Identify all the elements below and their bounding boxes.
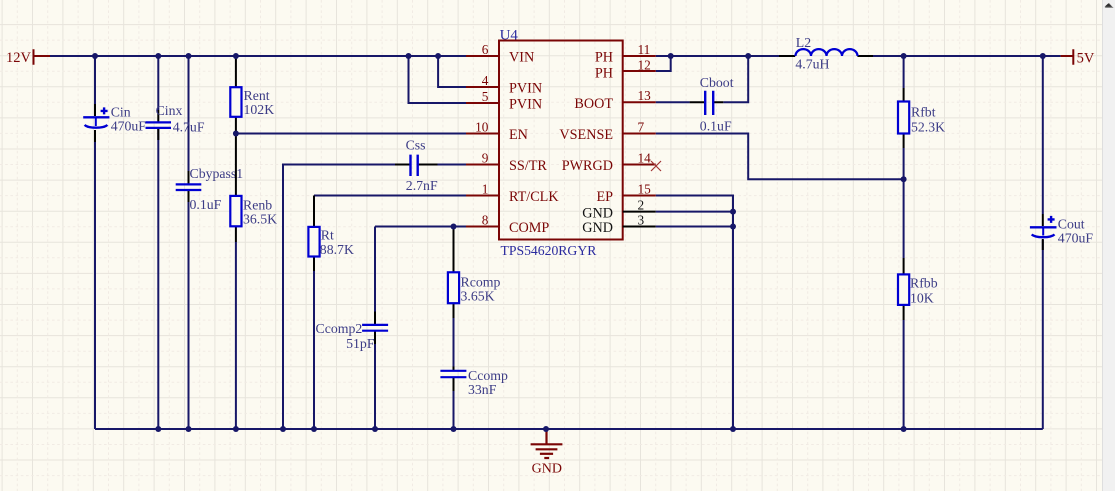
inductor L2 [779, 49, 873, 56]
resistor Rcomp [448, 227, 459, 319]
svg-text:36.5K: 36.5K [243, 212, 277, 227]
wire: PH pins 11-12 [656, 56, 779, 71]
pin 8 COMP [466, 212, 549, 236]
pin 13 BOOT [574, 88, 655, 112]
junction node: GND pin2 tie [730, 209, 736, 215]
wire: Rt lower to bus [313, 271, 315, 429]
capacitor Cbypass1 [176, 171, 202, 202]
pin 11 PH [595, 42, 656, 66]
resistor Rent [230, 55, 241, 134]
junction node: EN / Rent / Renb [233, 131, 239, 137]
svg-text:0.1uF: 0.1uF [190, 197, 222, 212]
svg-text:TPS54620RGYR: TPS54620RGYR [501, 243, 598, 258]
wire: VSENSE feedback net [656, 134, 904, 180]
capacitor Cboot [690, 91, 724, 115]
wire: Ccomp2 branch [374, 227, 376, 430]
pin 4 PVIN [466, 73, 542, 97]
svg-text:Rent: Rent [244, 88, 270, 103]
svg-text:5V: 5V [1077, 50, 1095, 66]
svg-text:15: 15 [638, 181, 652, 196]
junction node: bus / Cinx [155, 426, 161, 432]
capacitor Css [395, 155, 438, 176]
resistor Rt [308, 196, 319, 272]
svg-text:U4: U4 [500, 28, 519, 44]
resistor Rfbb [898, 258, 909, 320]
svg-text:7: 7 [638, 119, 645, 134]
svg-text:RT/CLK: RT/CLK [509, 189, 559, 205]
wire: PVIN pin4 drop [438, 56, 466, 87]
svg-text:3.65K: 3.65K [461, 289, 495, 304]
junction node: 12V rail / Cin [92, 53, 98, 59]
svg-text:11: 11 [638, 42, 651, 57]
wire: BOOT net with Cboot [656, 56, 749, 102]
svg-text:VSENSE: VSENSE [559, 127, 613, 143]
wire: SS/TR net with Css [283, 165, 466, 430]
pin 9 SS/TR [466, 150, 547, 174]
pin 1 RT/CLK [466, 181, 559, 205]
svg-text:33nF: 33nF [468, 382, 497, 397]
svg-text:52.3K: 52.3K [911, 120, 945, 135]
pin 12 PH [595, 57, 656, 81]
svg-text:0.1uF: 0.1uF [700, 119, 732, 134]
svg-text:2: 2 [638, 197, 645, 212]
no-connect X on pin 14 [651, 161, 661, 171]
svg-text:14: 14 [638, 150, 652, 165]
junction node: 5V rail / Cout [1040, 53, 1046, 59]
svg-text:Rcomp: Rcomp [461, 275, 501, 290]
svg-text:SS/TR: SS/TR [509, 158, 547, 174]
svg-text:13: 13 [638, 88, 652, 103]
pin 5 PVIN [466, 89, 542, 113]
svg-text:VIN: VIN [509, 50, 534, 66]
ground symbol GND [531, 429, 563, 458]
port 12V [34, 49, 51, 64]
wire: EP/GND pins to bus [656, 196, 733, 430]
junction node: bus / Renb [233, 426, 239, 432]
svg-text:51pF: 51pF [346, 336, 375, 351]
svg-text:Cout: Cout [1058, 217, 1085, 232]
svg-text:BOOT: BOOT [574, 96, 613, 112]
svg-text:GND: GND [582, 205, 613, 221]
resistor Rfbt [898, 88, 909, 148]
capacitor Ccomp [440, 367, 466, 392]
svg-text:PVIN: PVIN [509, 97, 542, 113]
junction node: bus / Css branch [280, 426, 286, 432]
junction node: bus / GND symbol [543, 426, 549, 432]
svg-text:PH: PH [595, 65, 613, 81]
wire: 12V input rail [50, 55, 466, 57]
wire: Cout branch [1042, 55, 1044, 429]
junction node: PH rail / Cboot riser [745, 53, 751, 59]
wire: Cinx branch [157, 55, 159, 429]
pin 14 PWRGD [562, 150, 656, 174]
wire: EN net [236, 133, 466, 135]
svg-text:470uF: 470uF [1058, 231, 1094, 246]
svg-text:2.7nF: 2.7nF [406, 178, 438, 193]
svg-text:Renb: Renb [243, 198, 272, 213]
junction node: VSENSE / Rfbt / Rfbb [901, 176, 907, 182]
svg-text:Ccomp: Ccomp [468, 368, 508, 383]
wire: Cbypass1 branch [188, 55, 190, 429]
svg-text:6: 6 [482, 42, 489, 57]
svg-text:12V: 12V [6, 50, 32, 66]
junction node: 12V rail / Cinx [155, 53, 161, 59]
svg-text:Rfbb: Rfbb [910, 276, 938, 291]
svg-text:PWRGD: PWRGD [562, 158, 613, 174]
svg-text:Cboot: Cboot [700, 75, 734, 90]
IC U4 TPS54620RGYR body [499, 41, 623, 240]
svg-text:9: 9 [482, 150, 489, 165]
pin 7 VSENSE [559, 119, 655, 143]
svg-text:GND: GND [582, 220, 613, 236]
junction node: bus / Rfbb [901, 426, 907, 432]
resistor Renb [230, 134, 241, 243]
svg-text:EN: EN [509, 127, 528, 143]
svg-text:Rt: Rt [321, 228, 334, 243]
pin 2 GND [582, 197, 655, 221]
junction node: COMP / Rcomp [451, 224, 457, 230]
svg-text:L2: L2 [796, 35, 811, 50]
svg-text:10K: 10K [910, 291, 934, 306]
svg-text:470uF: 470uF [111, 119, 147, 134]
wire: PVIN pin5 drop [409, 56, 467, 103]
junction node: PH pins 11-12 tie [668, 53, 674, 59]
scrollbar [1102, 0, 1115, 491]
junction node: bus / Rt [311, 426, 317, 432]
svg-text:8: 8 [482, 212, 489, 227]
svg-text:4.7uF: 4.7uF [173, 120, 205, 135]
svg-text:5: 5 [482, 89, 489, 104]
junction node: GND pin3 tie [730, 224, 736, 230]
svg-text:COMP: COMP [509, 220, 549, 236]
svg-text:4: 4 [482, 73, 489, 88]
svg-text:Rfbt: Rfbt [911, 105, 936, 120]
wire: ground bus [95, 428, 1043, 430]
svg-text:12: 12 [638, 57, 651, 72]
svg-text:PVIN: PVIN [509, 81, 542, 97]
wire: RT/CLK net [314, 195, 466, 197]
junction node: bus / Cbypass1 [186, 426, 192, 432]
capacitor Cout (polarized) [1030, 214, 1057, 250]
svg-text:1: 1 [482, 181, 489, 196]
capacitor Ccomp2 [362, 312, 388, 345]
svg-text:PH: PH [595, 50, 613, 66]
svg-text:3: 3 [638, 213, 645, 228]
svg-text:Cinx: Cinx [156, 103, 183, 118]
wire: Renb lower to bus [235, 242, 237, 429]
junction node: 12V rail / Cbypass1 [186, 53, 192, 59]
wire: Rcomp-Ccomp mid + lower [453, 318, 455, 429]
pin 10 EN [466, 119, 528, 143]
junction node: 5V rail / Rfbt [901, 53, 907, 59]
svg-text:EP: EP [596, 189, 613, 205]
junction node: 12V rail / PVIN pin4 drop [435, 53, 441, 59]
junction node: 12V rail / PVIN pin5 drop [406, 53, 412, 59]
pin 15 EP [596, 181, 655, 205]
svg-text:4.7uH: 4.7uH [795, 57, 829, 72]
svg-text:10: 10 [475, 119, 489, 134]
junction node: bus / Ccomp2 [372, 426, 378, 432]
junction node: 12V rail / Rent [233, 53, 239, 59]
pin 6 VIN [466, 42, 534, 66]
svg-text:102K: 102K [244, 102, 275, 117]
wire: COMP net [375, 226, 466, 228]
capacitor Cinx [146, 110, 172, 140]
svg-text:Cin: Cin [111, 105, 131, 120]
svg-text:88.7K: 88.7K [320, 242, 354, 257]
wire: Cin branch [94, 55, 96, 429]
svg-text:Css: Css [406, 138, 426, 153]
junction node: bus / IC grounds [730, 426, 736, 432]
svg-text:GND: GND [532, 462, 562, 477]
capacitor Cin (polarized) [83, 104, 109, 142]
junction node: bus / Ccomp [451, 426, 457, 432]
wire: 5V output rail [873, 55, 1061, 57]
port 5V [1061, 49, 1074, 64]
wire: Rfbt/Rfbb divider [903, 55, 905, 429]
svg-text:Ccomp2: Ccomp2 [316, 321, 363, 336]
pin 3 GND [582, 213, 655, 237]
